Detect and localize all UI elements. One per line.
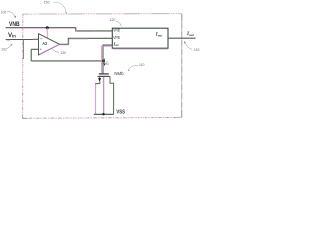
svg-text:Iset: Iset bbox=[112, 41, 118, 47]
svg-text:Vin: Vin bbox=[8, 32, 16, 39]
wire feedback vertical bbox=[30, 49, 32, 61]
svg-text:I2: I2 bbox=[105, 60, 110, 66]
pin plus mark bbox=[40, 48, 42, 50]
svg-text:102: 102 bbox=[1, 48, 7, 52]
svg-text:150: 150 bbox=[44, 1, 50, 5]
svg-text:VSS: VSS bbox=[116, 109, 125, 115]
wire source to left drop bbox=[96, 83, 100, 86]
node I2 current arrow bbox=[104, 58, 106, 65]
wire top dashed border bbox=[23, 13, 181, 16]
wire VSS rail bbox=[94, 113, 114, 115]
wire bottom dashed border bbox=[23, 116, 182, 119]
svg-text:152: 152 bbox=[194, 48, 200, 52]
block 120 bias box bbox=[112, 28, 168, 48]
svg-text:NMb: NMb bbox=[114, 71, 124, 76]
svg-text:A2: A2 bbox=[42, 41, 47, 46]
node VSS junction dot bbox=[102, 113, 104, 115]
svg-text:VNB: VNB bbox=[113, 28, 120, 33]
svg-text:Iout: Iout bbox=[155, 33, 162, 38]
svg-text:120: 120 bbox=[110, 18, 116, 22]
transistor source bar bbox=[98, 76, 111, 78]
transistor Q NMb channel bar bbox=[99, 73, 109, 75]
wire op-amp plus input bbox=[31, 48, 38, 50]
transistor gate bar bbox=[99, 74, 109, 76]
chip boundary dashed box 100 bbox=[23, 14, 182, 119]
wire Iset pair from box to transistor bbox=[103, 45, 112, 74]
pin source stub with arrow bbox=[99, 77, 101, 79]
node Vin input wire bbox=[6, 39, 39, 41]
wire Iout output bbox=[168, 37, 196, 39]
wire faint drop from Vin wire bbox=[23, 40, 25, 60]
pin minus mark bbox=[40, 38, 42, 40]
svg-text:110: 110 bbox=[139, 63, 145, 67]
svg-text:100: 100 bbox=[1, 11, 7, 15]
op-amp U A2 triangle bbox=[39, 34, 60, 55]
wire left dashed border bbox=[22, 14, 24, 118]
node B junction dot feedback/drain bbox=[102, 59, 105, 62]
wire feedback horizontal to drain node bbox=[31, 60, 103, 62]
node VNB input wire bbox=[6, 27, 76, 29]
wire right dashed border bbox=[181, 14, 183, 118]
wire VNB step down to block 120 bbox=[76, 28, 113, 31]
wire body connection right jog bbox=[110, 77, 114, 114]
wire VNB bias drop to op-amp A2 (magenta) bbox=[46, 28, 48, 38]
svg-text:VPB: VPB bbox=[113, 35, 120, 40]
svg-text:VNB: VNB bbox=[9, 21, 20, 28]
wire op-amp output bbox=[60, 38, 113, 44]
node A junction dot on VNB wire bbox=[46, 26, 49, 29]
svg-text:130: 130 bbox=[60, 51, 66, 55]
wire source drop (pink) to VSS rail bbox=[95, 84, 97, 114]
wire gate/bulk drop (pink) to VSS rail bbox=[103, 77, 105, 114]
svg-text:Iout: Iout bbox=[186, 31, 195, 37]
